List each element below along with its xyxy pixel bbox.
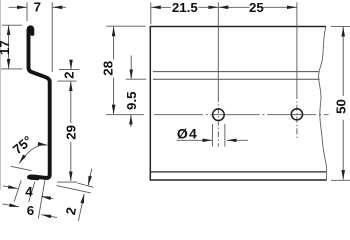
angle 75 reference line: [11, 166, 32, 170]
hole 2 circle: [291, 109, 302, 120]
hole 1 circle: [213, 109, 225, 121]
dimension 50 line lower with arrow down: [342, 120, 344, 180]
dimension 6 extension line right: [38, 180, 45, 219]
dimension 21.5 arrow left: [151, 6, 171, 8]
svg-text:25: 25: [249, 0, 264, 15]
groove line lower: [153, 78, 320, 80]
dimension 17 line with arrows: [8, 26, 10, 69]
svg-text:17: 17: [0, 40, 12, 55]
dimension 2 upper arrow down: [70, 60, 72, 70]
dimension 9.5 arrow up: [130, 115, 132, 127]
dimension 17 extension line top: [2, 24, 23, 26]
hole 1 centerline vertical: [217, 2, 219, 96]
dimension 6 arrow left: [3, 204, 19, 207]
groove line upper: [153, 71, 319, 73]
svg-text:2: 2: [62, 71, 77, 78]
dimension 2 upper extension line bottom: [58, 80, 77, 82]
dimension 9.5 extension line top: [126, 78, 146, 80]
diameter 4 tangent line left: [211, 124, 213, 147]
svg-text:28: 28: [101, 61, 116, 76]
dimension 25 arrow right: [263, 6, 296, 8]
svg-text:6: 6: [27, 203, 34, 218]
dimension 4 extension line right: [29, 182, 35, 202]
dimension 4 arrow right: [41, 196, 53, 198]
dimension 29 line lower with arrow down: [70, 142, 72, 181]
dimension 50 extension line bottom: [331, 179, 350, 181]
svg-text:9.5: 9.5: [124, 91, 139, 110]
dimension 50 extension line top: [331, 26, 350, 28]
rail profile folded flange end: [31, 177, 38, 180]
dimension 7 arrow left: [9, 6, 27, 8]
dimension 21.5 extension line left: [150, 2, 152, 24]
dimension 28 line with arrows: [113, 27, 115, 60]
dimension 28 extension line top: [106, 25, 145, 27]
dimension 25 arrow left: [219, 6, 250, 8]
dimension 2 thickness extension line upper: [77, 183, 93, 187]
dimension 9.5 arrow down: [130, 56, 132, 79]
dimension 2 thickness extension line lower: [57, 186, 91, 193]
panel top edge: [150, 26, 326, 28]
dimension 7 extension line left: [26, 2, 28, 21]
svg-text:29: 29: [64, 125, 79, 140]
svg-text:4: 4: [25, 184, 33, 199]
dimension 2 thickness arrow bottom: [78, 194, 84, 221]
dimension 17 extension line bottom: [1, 68, 22, 70]
dimension 7 extension line right: [51, 2, 53, 72]
dimension 4 arrow left: [3, 186, 18, 189]
panel bottom edge: [150, 179, 326, 181]
panel left edge: [149, 26, 151, 181]
dimension 2 thickness arrow top: [88, 169, 92, 186]
dimension 29 line upper with arrow up: [70, 82, 72, 124]
diameter 4 right arrow: [227, 139, 248, 141]
rail profile cross-section: [27, 25, 35, 38]
holes centerline horizontal extension: [106, 114, 144, 116]
rail profile main stroke: [29, 31, 50, 178]
svg-text:21.5: 21.5: [172, 0, 198, 15]
dimension 2 upper extension line top: [59, 69, 79, 71]
dimension 29 extension line bottom: [57, 181, 77, 183]
angle 75 arc with arrows: [19, 145, 47, 163]
dimension 7 arrow right: [53, 6, 66, 8]
dimension 50 line upper with arrow up: [342, 27, 344, 96]
diameter 4 tangent line right: [224, 124, 226, 147]
svg-text:7: 7: [34, 0, 41, 15]
dimension 21.5 arrow right: [199, 6, 219, 8]
dimension 4 extension line left: [14, 180, 21, 201]
hole 2 centerline vertical: [296, 2, 298, 93]
scan edge artifact: [0, 0, 2, 190]
svg-text:Ø4: Ø4: [177, 125, 198, 141]
break line wavy right edge: [319, 27, 327, 180]
svg-text:50: 50: [334, 99, 349, 114]
dimension 6 arrow right: [42, 215, 57, 218]
panel inner bottom fold line: [151, 171, 327, 173]
holes centerline horizontal dash-dot: [154, 114, 329, 116]
diameter 4 leader with arrow: [177, 139, 213, 141]
